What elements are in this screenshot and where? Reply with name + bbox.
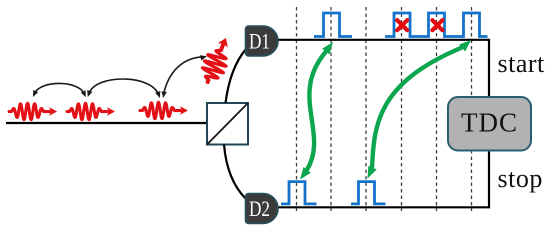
D1 pulse trace: triple pulse group [385,13,488,37]
rejected pulse X mark 1 [397,20,407,30]
time grid dashed line 3 [365,7,367,211]
beam splitter BS [207,103,248,145]
svg-text:D1: D1 [249,29,270,54]
green correlation arrow 1 (D2 pulse 1 to D1 pulse 1) [300,42,333,180]
rejected pulse X mark 2 [432,20,442,30]
TDC box [448,97,531,151]
D2 pulse trace: pulse 1 [281,182,317,204]
deflected photon wavepacket [198,34,236,86]
photon wavepacket 3 [140,102,188,118]
arc C: interval to deflected photon [162,55,208,98]
photon wavepacket 2 [67,103,115,119]
time grid dashed line 2 [330,7,332,211]
green correlation arrow 2 (D2 pulse 2 to D1 pulse 3) [368,40,472,179]
wire: D1 start track, right vertical, D2 stop track [277,40,489,208]
D2 pulse trace: pulse 2 [351,182,386,204]
time grid dashed line 4 [401,7,403,211]
wire: BS to D2 [224,145,246,200]
arc A: interval between photon 1 and photon 2 [33,83,86,97]
svg-text:start: start [498,49,546,78]
svg-text:TDC: TDC [461,108,518,138]
detector D1 [246,26,279,56]
svg-text:D2: D2 [249,196,270,221]
arc B: interval between photon 2 and photon 3 [87,79,160,98]
D1 pulse trace: single pulse [314,13,352,37]
photon wavepacket 1 [9,103,57,119]
input optical axis wire [6,122,208,124]
time grid dashed line 6 [471,7,473,211]
time grid dashed line 5 [436,7,438,211]
wire: BS to D1 [226,49,247,103]
time grid dashed line 1 [296,7,298,211]
detector D2 [246,194,279,224]
svg-text:stop: stop [498,164,543,193]
